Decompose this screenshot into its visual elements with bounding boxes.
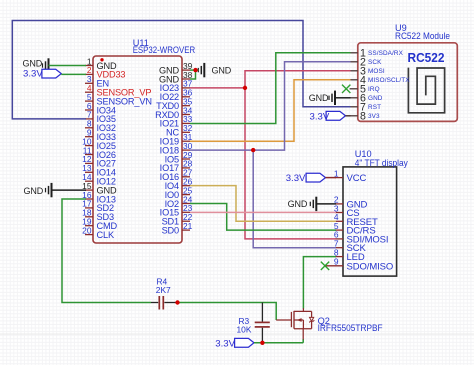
3.3V flag at U10 pin 1 [286, 173, 326, 184]
U11 pin 24 IO2 [165, 194, 193, 209]
svg-text:ESP32-WROVER: ESP32-WROVER [133, 45, 196, 55]
U9 antenna coil [408, 68, 444, 113]
svg-text:4" TFT display: 4" TFT display [355, 158, 408, 168]
U10 pin 6 SDI/MOSI [334, 230, 389, 246]
transistor Q2 IRFR5505TRPBF (P-MOSFET) [276, 308, 314, 339]
U11 pin 18 SD3 [82, 208, 114, 223]
wire U11 IO19 to U9 MISO (net MISO) [190, 80, 351, 141]
svg-text:9: 9 [334, 257, 339, 267]
wire 3.3V to U9 pin 8 [346, 115, 351, 117]
ground symbol at U11 pin 15 [24, 183, 52, 197]
U10 pin 4 RESET [334, 212, 378, 228]
junction at R3 bottom / 3.3V rail [260, 341, 264, 345]
Q2 label [318, 316, 383, 333]
svg-text:GND: GND [24, 186, 44, 196]
wire U11 IO35 to U9 RST (net RST) [12, 21, 350, 119]
U11 pin 38 GND [159, 70, 193, 85]
U10 pin 5 DC/RS [334, 221, 376, 237]
U11 pin 11 IO26 [83, 145, 116, 160]
svg-text:3.3V: 3.3V [286, 173, 306, 184]
svg-text:8: 8 [360, 111, 366, 123]
U11 pin 20 CLK [82, 225, 115, 240]
U11 pin 33 IO21 [160, 114, 193, 129]
svg-text:IRQ: IRQ [368, 86, 380, 93]
U11 pin 4 SENSOR_VP [85, 83, 151, 98]
U11 pin 15 GND [82, 181, 117, 196]
wire SCK branch to U10 SCK [253, 150, 336, 248]
U11 pin 7 IO35 [85, 110, 116, 125]
U10 pin 3 CS [334, 203, 360, 219]
U9 pin 7 RST [350, 102, 381, 114]
U11 pin 32 NC [166, 123, 193, 138]
junction on SCK net at IO18 [251, 148, 255, 152]
svg-text:21: 21 [183, 221, 193, 231]
wire ground to U9 pin 6 GND [335, 97, 351, 99]
resistor R4 (2K7) [151, 277, 178, 310]
U11 pin 10 IO25 [82, 136, 116, 151]
U11 pin 17 SD2 [82, 199, 114, 214]
svg-text:GND: GND [368, 95, 383, 102]
wire U11 IO15 to U10 CS [190, 211, 336, 213]
U10 pin 9 SDO/MISO [325, 257, 393, 273]
wire U11 pin 38 GND joins pin 39 [190, 70, 196, 79]
U11 pin 9 IO33 [85, 128, 116, 143]
svg-text:GND: GND [309, 93, 329, 103]
U11 pin 14 IO12 [82, 172, 116, 187]
wire GND to U11 pin 1 [49, 65, 87, 67]
junction right of R4 [175, 300, 179, 304]
U9 pin 6 GND [350, 93, 383, 105]
module U9 RC522 body [358, 43, 458, 122]
wire U11 IO23 to U9 MOSI (net MOSI) [190, 71, 351, 88]
U11 pin 19 CMD [82, 217, 117, 232]
U11 pin 2 VDD33 [85, 65, 125, 80]
U9 pin 2 SCK [350, 57, 382, 69]
wire GND to U11 pin 15 [52, 189, 87, 191]
3.3V flag at U9 pin 8 [310, 111, 346, 122]
U11 pin 37 IO23 [160, 79, 193, 94]
svg-text:VCC: VCC [347, 173, 367, 184]
wire MOSI branch to U10 SDI/MOSI [245, 88, 336, 239]
svg-text:2K7: 2K7 [156, 285, 171, 295]
U11 pin 35 TXD0 [156, 97, 193, 112]
U11 pin 1 GND [85, 56, 117, 71]
wire 3.3V to U10 pin 1 VCC [326, 177, 337, 179]
svg-text:SCK: SCK [368, 59, 382, 66]
U11 reference designator label [133, 38, 196, 55]
ground symbol at U11 pins 38/39 [198, 63, 232, 77]
U9 pin 8 3V3 [350, 111, 380, 123]
wire ground to U10 pin 2 GND [316, 203, 336, 205]
svg-text:MISO/SCL/TX: MISO/SCL/TX [368, 77, 410, 84]
svg-text:SD0: SD0 [162, 225, 179, 235]
wire R3 top tap [261, 303, 263, 322]
U9 pin 4 MISO/SCL/TX [350, 75, 411, 87]
U9 pin 3 MOSI [350, 66, 385, 78]
svg-text:GND: GND [212, 65, 232, 75]
svg-text:GND: GND [288, 199, 308, 209]
junction on MOSI net at IO23 [243, 86, 247, 90]
wire U11 IO2 to U10 DC/RS [190, 203, 336, 230]
no-connect X on U9 pin 5 IRQ [342, 85, 350, 93]
U11 pin 13 IO14 [82, 163, 116, 178]
U11 pin 34 RXD0 [155, 105, 193, 120]
U11 pin 6 IO34 [85, 101, 116, 116]
U11 pin 26 IO4 [165, 177, 193, 192]
svg-text:GND: GND [23, 58, 43, 68]
U9 pin 5 IRQ [350, 84, 380, 96]
svg-text:CLK: CLK [97, 230, 115, 240]
wire U11 IO21 to U9 SS/SDA (net SS) [190, 53, 351, 124]
U11 pin 27 IO16 [160, 168, 193, 183]
module U10 4in TFT display body [343, 167, 397, 276]
3.3V flag at U11 pin 2 [23, 69, 61, 80]
wire U11 pin 39 GND to ground [190, 69, 198, 71]
svg-text:RST: RST [368, 104, 381, 111]
svg-text:20: 20 [82, 225, 92, 235]
svg-text:3V3: 3V3 [368, 113, 380, 120]
svg-text:SS/SDA/RX: SS/SDA/RX [368, 50, 404, 57]
wire 3.3V rail to Q2 source [254, 339, 303, 343]
svg-text:3.3V: 3.3V [310, 111, 330, 122]
svg-text:RC522: RC522 [408, 51, 445, 65]
svg-text:SDO/MISO: SDO/MISO [347, 261, 394, 272]
wire R4 to R3 and Q2 gate [178, 303, 277, 321]
wire U11 IO13 to R4 [62, 199, 151, 303]
U10 pin 2 GND [334, 195, 368, 211]
ground symbol at U11 pin 1 [23, 58, 49, 72]
U11 pin 22 SD1 [162, 212, 193, 227]
svg-text:MOSI: MOSI [368, 68, 385, 75]
svg-text:10K: 10K [237, 325, 252, 335]
U11 pin 25 IO0 [165, 185, 193, 200]
U10 pin 7 SCK [334, 239, 367, 255]
wire R3 bottom to 3.3V rail [261, 328, 263, 343]
U11 pin 36 IO22 [160, 88, 193, 103]
IC U11 ESP32-WROVER body [93, 56, 182, 243]
wire U11 IO18 to U9 SCK (net SCK) [190, 62, 351, 150]
U11 pin 12 IO27 [82, 154, 116, 169]
resistor R3 (10K) [237, 316, 270, 335]
U11 pin 23 IO15 [160, 203, 193, 218]
U11 pin 5 SENSOR_VN [85, 92, 152, 107]
U10 pin 8 LED [334, 247, 365, 263]
wire U11 IO4 to U10 RESET [190, 186, 336, 222]
U11 pin 3 EN [85, 74, 109, 89]
U9 pin 1 SS/SDA/RX [350, 48, 404, 60]
junction at U11 pin39 GND net [193, 68, 197, 72]
U11 pin 28 IO17 [160, 159, 193, 174]
wire 3.3V to U11 pin 2 [61, 73, 86, 75]
ground symbol at U10 pin 2 [288, 197, 317, 211]
U9 reference designator label [395, 23, 450, 41]
U10 pin 1 VCC [334, 168, 367, 184]
svg-text:3.3V: 3.3V [215, 339, 235, 350]
U11 pin 16 IO13 [82, 190, 116, 205]
3.3V flag at bottom rail [215, 338, 254, 349]
wire U10 LED to Q2 drain [303, 257, 336, 309]
U11 pin 21 SD0 [162, 221, 193, 236]
ground symbol at U9 pin 6 [309, 91, 335, 105]
U11 pin 29 IO5 [165, 150, 193, 165]
svg-text:3.3V: 3.3V [23, 69, 43, 80]
U11 pin 8 IO32 [85, 119, 116, 134]
no-connect X on U10 pin 9 SDO/MISO [321, 262, 329, 270]
U11 pin 39 GND [159, 61, 193, 76]
U11 pin 31 IO19 [160, 132, 193, 147]
svg-text:RC522 Module: RC522 Module [395, 31, 450, 41]
U10 reference designator label [355, 149, 408, 168]
U11 pin 30 IO18 [160, 141, 193, 156]
svg-text:IRFR5505TRPBF: IRFR5505TRPBF [318, 323, 383, 333]
